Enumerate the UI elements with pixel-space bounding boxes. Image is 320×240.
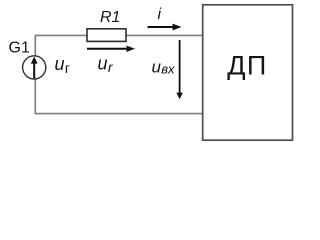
svg-text:ДП: ДП bbox=[227, 51, 268, 81]
voltage arrow ur (under resistor) bbox=[87, 46, 135, 52]
svg-text:R1: R1 bbox=[100, 9, 120, 26]
input voltage arrow uвх (down) bbox=[176, 40, 182, 99]
device box ДП bbox=[203, 5, 293, 140]
voltage source G1 (circle) bbox=[23, 56, 46, 79]
current arrow i bbox=[148, 24, 182, 31]
svg-text:G1: G1 bbox=[9, 39, 30, 56]
wire loop: top wire, left vertical wire, bottom wire bbox=[35, 35, 202, 113]
svg-text:i: i bbox=[158, 6, 162, 23]
resistor R1 bbox=[87, 29, 126, 42]
source arrow (up) inside G1 bbox=[31, 57, 38, 79]
